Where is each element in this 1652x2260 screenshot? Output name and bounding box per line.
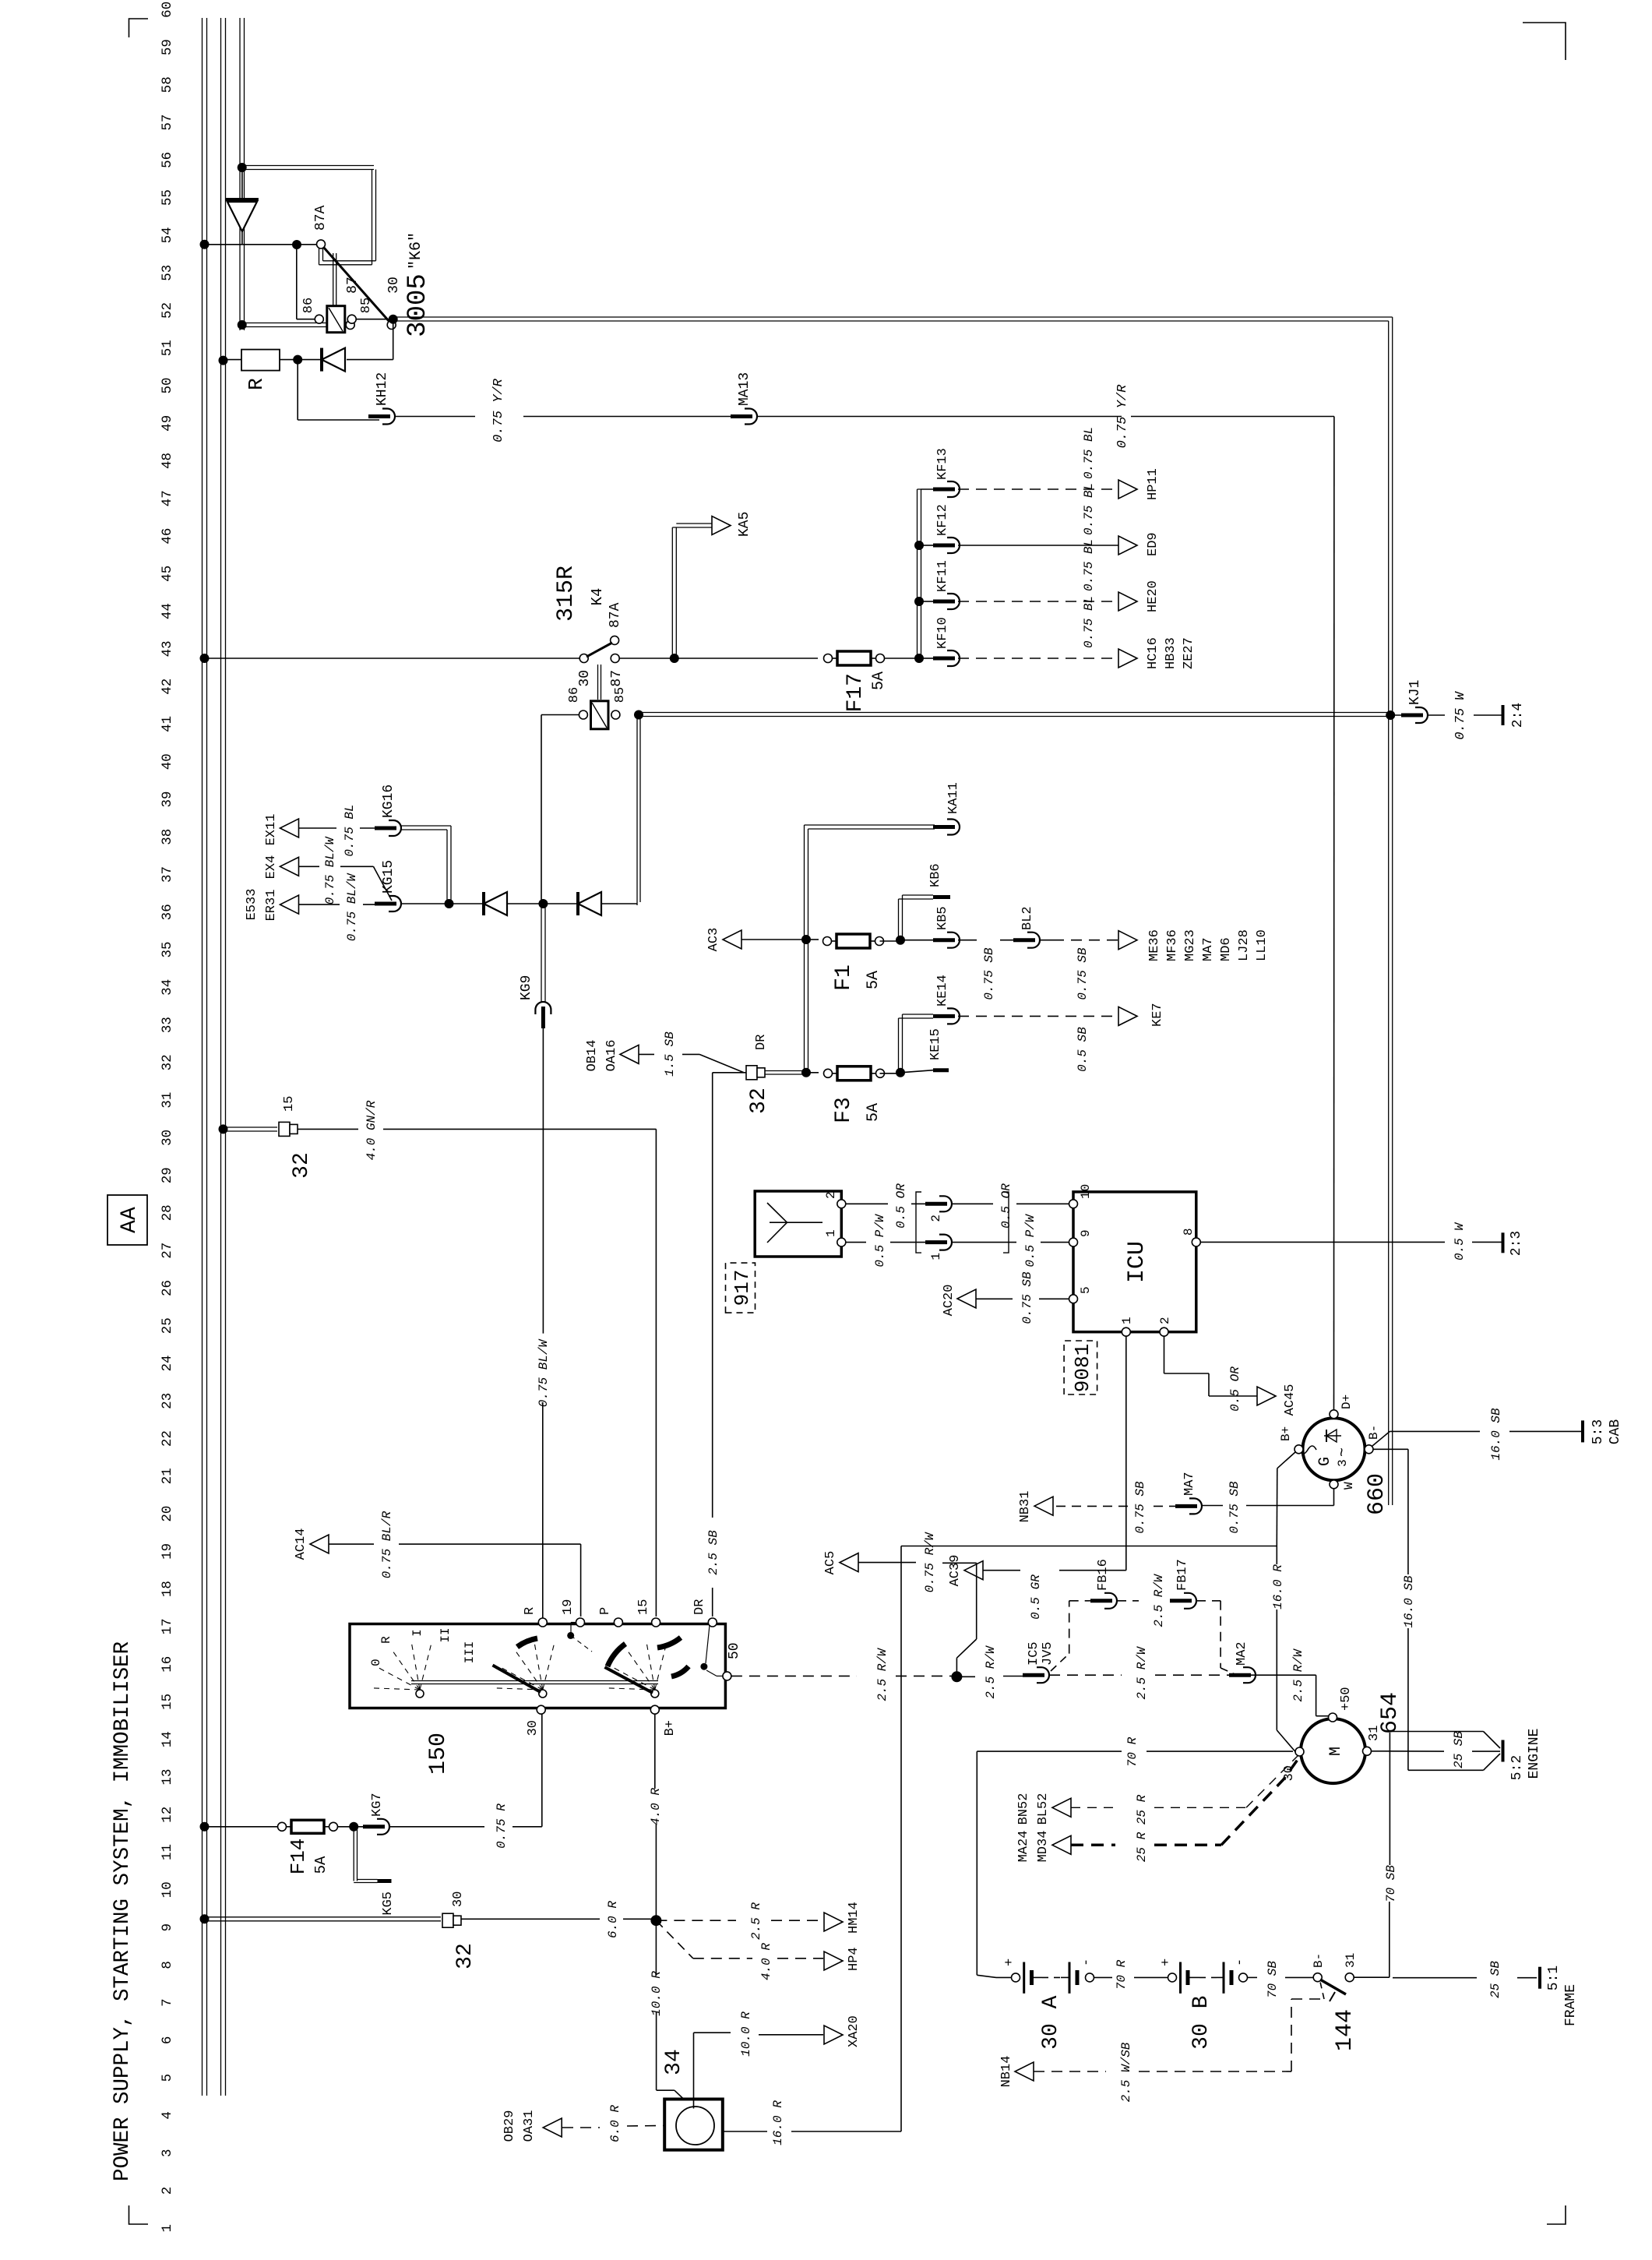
wire 2.5 R/W from switch 50 dashed xyxy=(731,1675,857,1676)
generator pin W xyxy=(1330,1480,1338,1489)
wire 315R coil 85 junction down (single) xyxy=(634,710,643,720)
switch 144 lever xyxy=(1320,1980,1346,1994)
svg-text:KF12: KF12 xyxy=(935,504,950,536)
connector 32 pin 30 xyxy=(442,1913,453,1927)
svg-text:MF36: MF36 xyxy=(1165,929,1180,961)
svg-text:13: 13 xyxy=(160,1768,175,1785)
svg-text:36: 36 xyxy=(160,904,175,920)
wire 70 SB battery B to 144 xyxy=(1248,1976,1258,1978)
svg-text:5A: 5A xyxy=(870,672,888,690)
svg-text:70 SB: 70 SB xyxy=(1266,1961,1280,1998)
switch 150 fan 1 key positions xyxy=(416,1690,424,1698)
wire KF13 dashed to arrow HP11 xyxy=(958,488,1118,490)
wire 315R coil 86 to node B xyxy=(541,714,579,716)
starter pin 31 xyxy=(1363,1747,1372,1755)
arrow NB31 xyxy=(1034,1497,1053,1515)
connector KF11 xyxy=(921,601,933,602)
svg-text:31: 31 xyxy=(1344,1953,1358,1968)
wire connector2 to ICU pin 10 xyxy=(952,1203,993,1204)
switch 150 pin DR xyxy=(708,1618,717,1627)
wire 0.75 R/W from AC5 xyxy=(858,1562,916,1564)
node resistor junction xyxy=(293,355,302,365)
svg-text:BL52: BL52 xyxy=(1036,1793,1051,1825)
svg-text:R: R xyxy=(523,1607,537,1615)
svg-text:51: 51 xyxy=(160,340,175,356)
battery 30 B xyxy=(1168,1973,1177,1982)
relay 315R switch arm xyxy=(586,643,612,657)
svg-text:KG7: KG7 xyxy=(370,1793,385,1817)
svg-text:0.5 P/W: 0.5 P/W xyxy=(873,1214,887,1268)
svg-text:22: 22 xyxy=(160,1430,175,1447)
arrow AC39 xyxy=(964,1561,983,1580)
switch 150 pin B+ xyxy=(650,1705,659,1714)
svg-text:HP11: HP11 xyxy=(1146,468,1161,500)
ICU pin 8 xyxy=(1192,1238,1200,1246)
svg-text:17: 17 xyxy=(160,1618,175,1634)
svg-text:0.75 BL: 0.75 BL xyxy=(1082,596,1096,648)
switch 150 internal dot 19 xyxy=(567,1632,574,1639)
svg-text:B+: B+ xyxy=(1279,1426,1293,1441)
svg-text:4: 4 xyxy=(160,2111,175,2120)
svg-text:86: 86 xyxy=(567,687,582,703)
fuse F17 xyxy=(824,654,833,663)
node rail A junction 32/30 xyxy=(200,1914,210,1923)
svg-text:MA7: MA7 xyxy=(1201,937,1216,961)
wire coil 86 to 87A feed xyxy=(297,319,315,320)
node rail B junction 32/15 xyxy=(219,1124,228,1134)
connector FB16 xyxy=(1104,1593,1117,1609)
node KE15 junction xyxy=(896,1068,905,1077)
wire junction to F3 xyxy=(806,1072,819,1074)
arrow XA20 xyxy=(824,2026,843,2044)
connector KG7 xyxy=(377,1819,389,1835)
svg-text:OB29: OB29 xyxy=(502,2110,517,2142)
wire 2.5 R/W junction to IC5 xyxy=(956,1676,975,1677)
wire mechanical link coil to arm xyxy=(333,253,334,306)
switch 144 pin B- xyxy=(1313,1973,1322,1982)
svg-text:2.5 SB: 2.5 SB xyxy=(706,1530,720,1575)
svg-text:10.0 R: 10.0 R xyxy=(650,1971,664,2016)
switch 150 shaft link xyxy=(411,1684,658,1685)
svg-text:1.5 SB: 1.5 SB xyxy=(663,1031,677,1077)
svg-text:+50: +50 xyxy=(1339,1687,1354,1711)
svg-text:F3: F3 xyxy=(832,1097,856,1123)
svg-text:52: 52 xyxy=(160,302,175,319)
svg-text:+: + xyxy=(1002,1959,1017,1966)
switch 150 pin 19 xyxy=(576,1618,585,1627)
svg-text:DR: DR xyxy=(754,1035,769,1050)
svg-text:D+: D+ xyxy=(1340,1394,1354,1409)
svg-text:HC16: HC16 xyxy=(1146,637,1161,669)
connector KF12 xyxy=(921,545,933,546)
svg-text:70 SB: 70 SB xyxy=(1384,1865,1398,1902)
svg-text:W: W xyxy=(1342,1482,1356,1490)
wire switch R segment xyxy=(542,1449,544,1618)
svg-text:MD34: MD34 xyxy=(1036,1831,1051,1863)
svg-text:K4: K4 xyxy=(589,588,606,606)
wire 16.0 SB line xyxy=(1407,1449,1409,1574)
generator 660 circle xyxy=(1303,1418,1365,1480)
wire 70 R battery A to B xyxy=(1094,1976,1113,1978)
switch 150 fan 2 arm xyxy=(493,1666,541,1693)
svg-text:0.75 SB: 0.75 SB xyxy=(1076,947,1090,1000)
starter pin +50 xyxy=(1329,1713,1337,1722)
svg-text:43: 43 xyxy=(160,640,175,657)
svg-text:2.5 R: 2.5 R xyxy=(749,1902,763,1940)
svg-text:FRAME: FRAME xyxy=(1563,1984,1579,2026)
switch 150 pin 30 xyxy=(537,1705,545,1714)
connector 2 xyxy=(939,1196,952,1211)
bracket below connectors xyxy=(1003,1192,1009,1253)
wire ICU pin 8 to ground 2:3 xyxy=(1200,1241,1445,1243)
svg-text:47: 47 xyxy=(160,490,175,506)
generator pin B- xyxy=(1365,1445,1373,1454)
svg-text:2.5 R/W: 2.5 R/W xyxy=(984,1645,998,1699)
svg-text:5A: 5A xyxy=(312,1856,329,1874)
wire EX4 to KG15 diagonal xyxy=(299,866,320,867)
svg-text:1: 1 xyxy=(929,1253,943,1260)
connector BL2 xyxy=(1027,933,1040,948)
arrow AC5 xyxy=(840,1553,858,1572)
connector FB17 xyxy=(1184,1593,1196,1609)
svg-text:0.75 SB: 0.75 SB xyxy=(1020,1271,1034,1324)
node 2.5 R/W junction xyxy=(951,1671,962,1682)
svg-text:0.5 P/W: 0.5 P/W xyxy=(1023,1214,1037,1268)
svg-text:30: 30 xyxy=(1189,2023,1213,2050)
wire 315R 87 to fuse F17 xyxy=(619,658,818,659)
svg-text:9: 9 xyxy=(160,1923,175,1932)
arrow AC14 xyxy=(310,1535,329,1553)
wire F17 to KF bus xyxy=(885,658,919,659)
svg-text:KE15: KE15 xyxy=(928,1028,943,1060)
diode D4 immobiliser xyxy=(545,903,578,904)
svg-text:18: 18 xyxy=(160,1581,175,1597)
svg-text:0.5 SB: 0.5 SB xyxy=(1076,1027,1090,1072)
svg-text:EX4: EX4 xyxy=(264,855,279,880)
dashed 2.5 R to HM14 xyxy=(656,1920,736,1921)
svg-text:87A: 87A xyxy=(608,602,623,628)
wire DR corner down to connector 32/DR xyxy=(713,1072,746,1074)
ignition switch 150 box xyxy=(350,1624,725,1708)
svg-text:3: 3 xyxy=(160,2149,175,2157)
corner mark top-right xyxy=(129,19,149,37)
wire 0.75 BL/R from AC14 to switch 19 xyxy=(329,1543,374,1545)
wire KB5 to BL2 xyxy=(958,940,977,941)
svg-text:10.0 R: 10.0 R xyxy=(739,2011,753,2057)
wire KF bus xyxy=(917,489,918,658)
antenna symbol xyxy=(787,1222,823,1223)
svg-text:4.0 R: 4.0 R xyxy=(649,1788,663,1825)
svg-text:OA16: OA16 xyxy=(604,1040,619,1072)
arrow MA24/MD34 xyxy=(1052,1835,1071,1854)
svg-text:R: R xyxy=(379,1636,393,1644)
svg-text:11: 11 xyxy=(160,1844,175,1860)
ground 5:3 CAB xyxy=(1390,1430,1480,1432)
svg-text:0.75 R: 0.75 R xyxy=(495,1803,509,1849)
svg-text:30: 30 xyxy=(160,1130,175,1146)
svg-text:59: 59 xyxy=(160,39,175,55)
svg-text:AC39: AC39 xyxy=(948,1555,963,1587)
svg-text:2:3: 2:3 xyxy=(1509,1231,1524,1256)
node A KG15/KG16 xyxy=(445,899,454,908)
svg-text:31: 31 xyxy=(1367,1726,1382,1741)
wire KF10 dashed to arrow HC16 xyxy=(958,658,1118,659)
connector MA7 xyxy=(1189,1498,1202,1514)
svg-text:25 SB: 25 SB xyxy=(1452,1731,1466,1768)
svg-text:2: 2 xyxy=(824,1191,838,1199)
battery 30 A xyxy=(1012,1973,1020,1982)
svg-text:KF13: KF13 xyxy=(935,448,950,480)
svg-text:16.0 R: 16.0 R xyxy=(1271,1564,1285,1610)
svg-text:54: 54 xyxy=(160,227,175,243)
wire gen W to MA7 xyxy=(1333,1489,1335,1506)
svg-text:KF10: KF10 xyxy=(935,617,950,649)
svg-text:5A: 5A xyxy=(865,1103,882,1122)
wire rail C to pin 87 of 3005 xyxy=(238,320,247,330)
wire 1.5 SB xyxy=(639,1053,654,1055)
switch 150 pin 15 xyxy=(652,1618,660,1627)
svg-text:70 R: 70 R xyxy=(1115,1959,1129,1990)
svg-text:15: 15 xyxy=(160,1694,175,1710)
svg-text:5: 5 xyxy=(160,2074,175,2082)
svg-text:KG5: KG5 xyxy=(381,1892,396,1916)
svg-text:10: 10 xyxy=(1079,1184,1093,1199)
wire gen D+ to 0.75 Y/R line xyxy=(1333,417,1335,1410)
wire KA11 feed from fuse bus xyxy=(808,828,935,830)
wire 6.0 R xyxy=(461,1918,600,1920)
svg-text:660: 660 xyxy=(1364,1473,1390,1515)
svg-text:5A: 5A xyxy=(865,971,882,989)
dashed branch to FB16 xyxy=(1051,1654,1069,1671)
svg-text:AC5: AC5 xyxy=(823,1551,838,1575)
svg-text:2.5 R/W: 2.5 R/W xyxy=(1291,1648,1305,1702)
svg-text:8: 8 xyxy=(160,1961,175,1969)
svg-text:B-: B- xyxy=(1367,1425,1381,1440)
wire junction to KB6 xyxy=(898,899,900,942)
svg-text:0.75 SB: 0.75 SB xyxy=(1133,1481,1147,1534)
svg-text:MA13: MA13 xyxy=(737,372,752,406)
ground 2:3 xyxy=(1502,1232,1505,1253)
dashed FB17 to MA2 xyxy=(1196,1600,1221,1602)
wire fuse feed bus to F1 and KA11 xyxy=(804,825,805,1073)
svg-text:4.0 R: 4.0 R xyxy=(759,1943,773,1980)
svg-text:0.75 BL/W: 0.75 BL/W xyxy=(323,836,337,904)
junction box 34 xyxy=(664,2100,723,2150)
svg-text:DR: DR xyxy=(692,1599,707,1615)
svg-text:2.5 R/W: 2.5 R/W xyxy=(1135,1646,1149,1700)
svg-text:KE14: KE14 xyxy=(935,975,950,1007)
connector KG9 xyxy=(535,1002,551,1014)
svg-text:29: 29 xyxy=(160,1167,175,1183)
arrow KE7 xyxy=(1118,1007,1137,1025)
generator pin D+ xyxy=(1330,1410,1338,1419)
connector KF13 xyxy=(947,481,960,497)
svg-text:19: 19 xyxy=(561,1599,576,1615)
svg-text:12: 12 xyxy=(160,1807,175,1823)
arrow KA5 xyxy=(712,517,731,535)
svg-text:6.0 R: 6.0 R xyxy=(608,2105,622,2142)
switch 150 fan 3 arcs xyxy=(608,1644,625,1666)
svg-text:B: B xyxy=(1189,1996,1213,2009)
arrow BN52/BL52 xyxy=(1052,1798,1071,1817)
diode D1 near rails xyxy=(241,167,243,204)
arrow HP4 xyxy=(824,1951,843,1970)
connector KG5 stub xyxy=(353,1828,354,1881)
AA reference box xyxy=(107,1195,147,1245)
corner mark top-left xyxy=(129,2205,149,2224)
svg-text:0.5 OR: 0.5 OR xyxy=(1228,1366,1242,1412)
switch 150 fan 3 xyxy=(651,1690,659,1698)
wire 70 R from battery A plus xyxy=(996,1976,1011,1978)
svg-text:0.75 Y/R: 0.75 Y/R xyxy=(491,378,506,442)
connector 32 pin DR xyxy=(746,1066,757,1080)
svg-text:25 SB: 25 SB xyxy=(1488,1961,1502,1998)
svg-text:G: G xyxy=(1316,1457,1334,1466)
arrow OB14/OA16 xyxy=(620,1045,639,1063)
ground 5:2 ENGINE xyxy=(1502,1740,1505,1762)
svg-text:KJ1: KJ1 xyxy=(1407,680,1423,705)
connector IC5/JV5 xyxy=(1037,1667,1049,1683)
switch 150 internal dot DR-50 xyxy=(700,1663,707,1670)
svg-text:NB14: NB14 xyxy=(999,2056,1014,2088)
svg-text:AA: AA xyxy=(118,1207,142,1233)
svg-text:0.75 W: 0.75 W xyxy=(1453,691,1468,740)
svg-text:87: 87 xyxy=(609,670,625,687)
svg-text:BN52: BN52 xyxy=(1016,1793,1031,1825)
svg-text:0.5 OR: 0.5 OR xyxy=(894,1183,908,1229)
node fuse feed junction xyxy=(801,1068,811,1077)
wire EX11 to KG16 xyxy=(299,827,337,829)
svg-text:917: 917 xyxy=(731,1270,754,1306)
dashed 25 R to BN52 xyxy=(1071,1807,1115,1808)
wire 87A loop of relay 3005 xyxy=(242,169,374,171)
switch 150 fan 3 arm hatched xyxy=(604,1667,653,1693)
svg-text:48: 48 xyxy=(160,453,175,469)
svg-text:26: 26 xyxy=(160,1280,175,1296)
wire 70 SB to ground 5:1 FRAME xyxy=(1393,1977,1477,1979)
label 917 dashed box xyxy=(726,1263,756,1313)
svg-text:F1: F1 xyxy=(832,964,856,991)
svg-text:44: 44 xyxy=(160,603,175,619)
wire 0.75 W to ground 2:4 xyxy=(1428,714,1445,716)
svg-text:0.5 GR: 0.5 GR xyxy=(1029,1574,1043,1620)
node KB5 junction xyxy=(896,936,905,945)
svg-text:50: 50 xyxy=(160,377,175,393)
svg-text:HM14: HM14 xyxy=(847,1902,861,1934)
ICU pin 10 xyxy=(1069,1200,1078,1208)
wire diode D4 to 315R coil 85 xyxy=(636,717,638,905)
wire rail A (battery feed 30) xyxy=(202,18,203,2096)
connector KB5 xyxy=(902,940,933,941)
wire KE14 dashed to KE7 xyxy=(958,1015,1118,1017)
svg-text:21: 21 xyxy=(160,1468,175,1484)
svg-text:10: 10 xyxy=(160,1881,175,1898)
svg-text:EX11: EX11 xyxy=(264,814,279,846)
svg-text:2: 2 xyxy=(929,1215,943,1222)
node KF10 junction xyxy=(914,654,924,663)
relay 3005 switch pins xyxy=(317,240,326,249)
svg-text:23: 23 xyxy=(160,1393,175,1409)
wire rail A to fuse F14 xyxy=(205,1826,283,1828)
svg-text:AC45: AC45 xyxy=(1283,1384,1298,1416)
connector 1 xyxy=(939,1235,952,1250)
svg-text:5:1: 5:1 xyxy=(1546,1966,1562,1990)
wire ICU pin2 to AC45 xyxy=(1164,1336,1165,1373)
svg-text:0.5 OR: 0.5 OR xyxy=(999,1183,1013,1229)
svg-text:ER31: ER31 xyxy=(264,890,279,922)
svg-text:5:3: 5:3 xyxy=(1590,1419,1606,1444)
svg-text:25: 25 xyxy=(160,1317,175,1334)
svg-text:5: 5 xyxy=(1079,1286,1093,1294)
svg-text:31: 31 xyxy=(160,1092,175,1109)
svg-text:32: 32 xyxy=(453,1943,477,1969)
connector MA13 xyxy=(745,409,757,425)
svg-text:NB31: NB31 xyxy=(1018,1491,1033,1523)
node rail C junction to relay 3005 xyxy=(238,163,247,172)
svg-text:16.0 R: 16.0 R xyxy=(771,2100,785,2145)
node rail A junction F14 xyxy=(200,1822,210,1832)
dashed 4.0 R branch to HP4 xyxy=(656,1920,692,1959)
svg-text:0.75 SB: 0.75 SB xyxy=(1228,1481,1242,1534)
svg-text:MA7: MA7 xyxy=(1182,1472,1197,1496)
generator internal diode xyxy=(1326,1430,1337,1442)
svg-text:KB6: KB6 xyxy=(928,863,943,887)
wire 10.0 R from 34 to XA20 xyxy=(693,2033,695,2108)
svg-text:37: 37 xyxy=(160,866,175,883)
node KA5 tap xyxy=(670,654,679,663)
svg-text:34: 34 xyxy=(662,2049,686,2075)
svg-text:34: 34 xyxy=(160,979,175,996)
ICU pin 9 xyxy=(1069,1238,1078,1246)
wire 0.75 R from KG7 to switch 30 xyxy=(389,1826,484,1828)
svg-text:0.75 SB: 0.75 SB xyxy=(982,947,996,1000)
wire 85 junction to diode D2 xyxy=(393,319,394,360)
wire KF12 solid to arrow ED9 xyxy=(958,545,1118,546)
svg-text:57: 57 xyxy=(160,115,175,131)
svg-text:HE20: HE20 xyxy=(1146,580,1161,612)
wire 0.75 SB AC20 to ICU pin 5 xyxy=(976,1298,1013,1299)
ground 2:4 xyxy=(1502,705,1505,725)
relay 3005 switch arm xyxy=(324,248,389,322)
svg-text:70 R: 70 R xyxy=(1125,1736,1139,1767)
svg-text:41: 41 xyxy=(160,716,175,732)
svg-text:38: 38 xyxy=(160,829,175,845)
connector MA2 xyxy=(1243,1667,1256,1683)
switch 150 pin R xyxy=(538,1618,547,1627)
svg-text:45: 45 xyxy=(160,566,175,582)
svg-text:40: 40 xyxy=(160,753,175,770)
svg-text:1: 1 xyxy=(160,2224,175,2233)
svg-text:46: 46 xyxy=(160,528,175,545)
svg-text:BL2: BL2 xyxy=(1020,906,1035,930)
connector KH12 xyxy=(382,409,395,425)
svg-text:-: - xyxy=(1233,1959,1248,1966)
svg-text:1: 1 xyxy=(1120,1317,1134,1324)
wire rail C xyxy=(239,18,241,330)
svg-text:KG9: KG9 xyxy=(519,975,534,1000)
relay 3005 coil xyxy=(327,306,345,333)
node KJ1 junction on B+ bus xyxy=(1386,710,1395,720)
svg-text:27: 27 xyxy=(160,1243,175,1259)
starter motor 654 circle xyxy=(1301,1719,1365,1783)
wire rail B xyxy=(220,18,222,2096)
svg-text:28: 28 xyxy=(160,1204,175,1221)
svg-text:MG23: MG23 xyxy=(1183,929,1198,961)
node KG5 junction xyxy=(349,1822,358,1832)
wire to KA5 arrow xyxy=(671,527,673,658)
fuse F3 xyxy=(824,1069,833,1077)
svg-text:0.75 BL: 0.75 BL xyxy=(1082,427,1096,479)
